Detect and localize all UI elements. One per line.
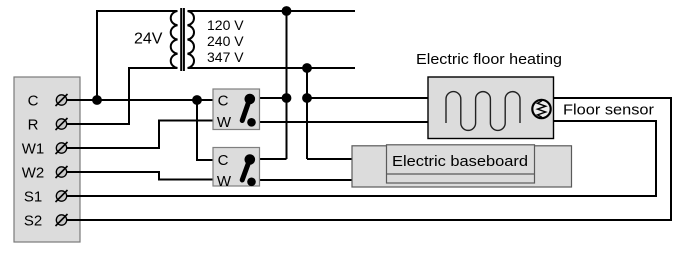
relay K2 switch — [242, 154, 256, 186]
wire relay1 bottom contact to floor heating bottom — [259, 121, 428, 123]
screw terminal S1 — [56, 190, 68, 202]
svg-text:W1: W1 — [22, 141, 45, 158]
wire C up to transformer primary top — [97, 11, 178, 100]
junction dot supply2 top — [302, 63, 312, 73]
transformer T1 secondary coil — [188, 11, 195, 68]
wire relay2 top contact to supply1 — [259, 158, 287, 160]
transformer T1 core — [181, 8, 184, 71]
screw terminal W2 — [56, 166, 68, 178]
svg-text:C: C — [28, 93, 39, 110]
relay K1 box — [213, 89, 260, 130]
wire W2 to relay2 W input — [66, 172, 213, 180]
electric floor heating box — [428, 77, 554, 139]
wire W1 to relay1 W input — [66, 121, 213, 149]
svg-text:Electric floor heating: Electric floor heating — [416, 51, 562, 68]
svg-text:Floor sensor: Floor sensor — [563, 102, 654, 119]
wire relay1 top contact to supply1 — [259, 97, 287, 99]
relay K1 switch — [242, 94, 256, 127]
svg-text:S1: S1 — [24, 189, 42, 206]
junction dot supply1 top — [282, 6, 292, 16]
wire secondary bottom to supply — [188, 67, 356, 69]
svg-text:240 V: 240 V — [207, 33, 244, 49]
screw terminal R — [56, 118, 68, 130]
junction dot relay1-supply1 — [282, 93, 292, 103]
junction dot heating-supply2 — [302, 93, 312, 103]
wire relay2 bottom contact to baseboard bottom — [259, 179, 352, 181]
wire secondary top to supply — [188, 10, 356, 12]
svg-text:24V: 24V — [134, 31, 163, 48]
wire supply line1 vertical — [286, 11, 288, 159]
wire supply line2 vertical — [306, 68, 308, 159]
thermostat terminal block — [14, 77, 80, 242]
svg-text:C: C — [218, 152, 229, 169]
screw terminal C — [56, 94, 68, 106]
electric baseboard inner box — [387, 145, 535, 183]
svg-text:S2: S2 — [24, 213, 42, 230]
svg-text:W2: W2 — [22, 165, 45, 182]
svg-text:W: W — [217, 114, 232, 131]
svg-text:120 V: 120 V — [207, 17, 244, 33]
junction dot C-relay2 — [192, 95, 202, 105]
floor sensor thermistor — [532, 100, 550, 119]
electric baseboard inner divider — [387, 173, 535, 175]
svg-text:347 V: 347 V — [207, 49, 244, 65]
screw terminal W1 — [56, 142, 68, 154]
wire supply2 to baseboard top — [307, 158, 352, 160]
electric baseboard outer box — [352, 146, 572, 187]
wire C junction down to relay2 C input — [197, 100, 213, 160]
svg-text:W: W — [217, 173, 232, 190]
wire S2 to floor sensor top — [66, 98, 671, 220]
svg-text:Electric baseboard: Electric baseboard — [392, 153, 528, 170]
wire S1 to floor sensor bottom — [66, 121, 656, 196]
screw terminal S2 — [56, 214, 68, 226]
svg-text:R: R — [28, 117, 39, 134]
transformer T1 24V primary coil — [171, 11, 178, 68]
wire R to transformer primary bottom — [66, 68, 178, 124]
relay K2 box — [213, 148, 260, 187]
svg-text:C: C — [218, 93, 229, 110]
wire supply2 to floor heating top — [307, 97, 428, 99]
junction dot C-transformer — [92, 95, 102, 105]
wire C row to relay1 — [66, 99, 213, 101]
heating element serpentine — [446, 92, 520, 131]
